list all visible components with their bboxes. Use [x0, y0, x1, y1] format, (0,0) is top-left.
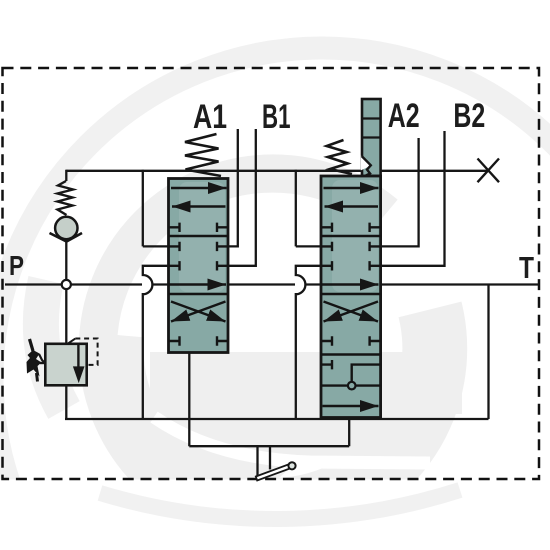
svg-text:T: T [519, 251, 534, 285]
svg-text:B2: B2 [453, 97, 485, 135]
svg-text:B1: B1 [262, 98, 291, 136]
svg-text:P: P [9, 250, 24, 281]
svg-text:A1: A1 [193, 98, 227, 136]
svg-text:A2: A2 [388, 97, 420, 135]
